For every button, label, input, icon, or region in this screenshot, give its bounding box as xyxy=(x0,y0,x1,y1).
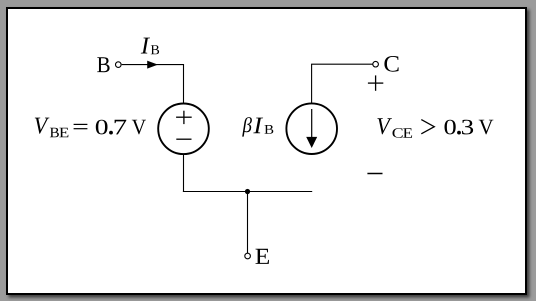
node C label xyxy=(384,56,398,72)
label : V unit xyxy=(479,120,494,135)
minus sign inside source xyxy=(176,138,191,140)
label : 0.7 xyxy=(96,120,108,135)
wire down into voltage source xyxy=(183,64,185,104)
wire down to E terminal xyxy=(247,192,249,254)
wire up from current source xyxy=(311,64,313,103)
label IB : sub B xyxy=(151,45,159,54)
minus sign VCE xyxy=(367,173,382,175)
node E label xyxy=(255,249,268,264)
junction dot E node xyxy=(245,189,250,194)
label : V unit xyxy=(132,120,146,135)
wire B to corner xyxy=(122,64,184,66)
terminal E open circle xyxy=(245,253,251,259)
voltage source VBE circle xyxy=(158,104,209,155)
wire below voltage source xyxy=(183,154,185,192)
label I of betaIB xyxy=(253,118,263,134)
current source circle xyxy=(286,103,337,154)
label beta xyxy=(242,117,252,136)
label VBE : V xyxy=(35,118,50,134)
label VBE : sub BE xyxy=(50,128,59,138)
node B label xyxy=(97,57,109,72)
label : greater than xyxy=(421,120,434,134)
terminal C open circle xyxy=(373,61,379,67)
plus sign inside source xyxy=(176,111,192,124)
current source arrow xyxy=(311,109,313,139)
label IB : I xyxy=(141,38,150,54)
plus sign VCE xyxy=(368,75,383,90)
label sub B of betaIB xyxy=(265,125,274,134)
label : 0.3 xyxy=(445,120,456,135)
bottom wire xyxy=(183,191,312,193)
label VCE : sub CE xyxy=(392,128,402,138)
terminal B open circle xyxy=(116,62,122,68)
current arrow IB xyxy=(148,61,157,68)
label : equals xyxy=(74,124,88,128)
wire to C terminal xyxy=(311,63,373,65)
label VCE : V xyxy=(377,118,392,134)
